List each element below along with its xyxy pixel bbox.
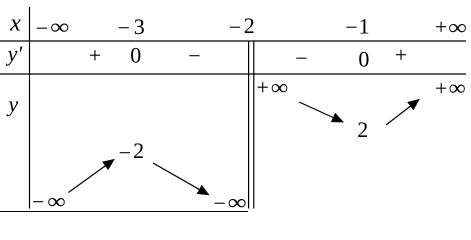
wire: decreasing arrow (right section) [299, 102, 343, 122]
node: y value -infinity (bottom, left of double bar) [213, 190, 246, 216]
svg-text:−: − [188, 43, 200, 68]
svg-text:−: − [213, 191, 225, 216]
node: y value +infinity (top right) [435, 75, 466, 101]
svg-text:2: 2 [357, 117, 368, 142]
wire: increasing arrow (right section) [386, 100, 419, 126]
svg-text:−: − [119, 140, 131, 165]
wire: left column vertical separator [29, 7, 31, 209]
svg-text:0: 0 [130, 43, 141, 68]
node: x value -1 [345, 14, 369, 40]
svg-text:y: y [6, 91, 18, 116]
node: y local max value -2 [119, 138, 145, 165]
svg-text:+: + [435, 14, 447, 39]
svg-text:∞: ∞ [271, 74, 289, 99]
svg-text:+: + [435, 76, 447, 101]
svg-text:1: 1 [359, 14, 370, 39]
node: x value -3 [118, 14, 145, 40]
node: y value +infinity (top, right of double bar) [256, 74, 288, 99]
wire: horizontal rule under x row [0, 40, 466, 42]
svg-text:∞: ∞ [47, 189, 66, 214]
wire: horizontal rule under y' row [0, 73, 466, 75]
svg-text:∞: ∞ [448, 14, 467, 39]
svg-text:−: − [32, 189, 44, 214]
svg-text:3: 3 [134, 14, 145, 39]
svg-text:∞: ∞ [50, 14, 69, 39]
wire: bottom rule of left section [0, 211, 248, 213]
svg-text:y′: y′ [6, 41, 24, 66]
node: double bar at x=-2 (left) [248, 41, 250, 209]
svg-text:2: 2 [244, 13, 255, 38]
svg-text:0: 0 [358, 46, 369, 71]
svg-text:−: − [229, 15, 241, 40]
wire: decreasing arrow (left section) [153, 163, 209, 195]
svg-text:x: x [9, 10, 21, 36]
node: double bar at x=-2 (right) [253, 41, 255, 209]
node: y value -infinity (bottom left) [32, 189, 66, 215]
node: x value -2 [229, 13, 255, 40]
svg-text:+: + [256, 74, 268, 99]
node: x value -infinity [36, 14, 70, 41]
svg-text:−: − [295, 45, 307, 70]
svg-text:∞: ∞ [228, 190, 247, 215]
svg-text:2: 2 [133, 138, 144, 163]
svg-text:−: − [118, 15, 130, 40]
svg-text:−: − [36, 15, 48, 40]
svg-text:∞: ∞ [449, 75, 466, 100]
svg-text:+: + [89, 43, 101, 68]
wire: increasing arrow (left section) [68, 160, 114, 193]
svg-text:+: + [395, 42, 407, 67]
svg-text:−: − [345, 15, 357, 40]
node: x value +infinity [435, 14, 467, 39]
